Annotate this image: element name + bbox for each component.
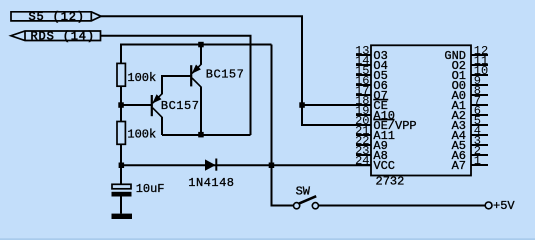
transistor Q1 BC157 xyxy=(191,64,201,88)
svg-text:S5 (12): S5 (12) xyxy=(29,10,85,24)
pin 9 (O0) xyxy=(452,74,488,93)
svg-text:1N4148: 1N4148 xyxy=(188,176,234,190)
terminal +5V xyxy=(485,202,492,209)
pin 11 (O2) xyxy=(452,54,489,73)
wire Q2 collector down xyxy=(161,117,163,135)
IC U1 2732 xyxy=(371,45,471,175)
pin 1 (A7) xyxy=(452,154,488,173)
pin 22 (A9) xyxy=(355,134,388,153)
junction Q1 collector node xyxy=(198,132,204,138)
wire base node to R2 xyxy=(120,105,122,122)
wire R2 to cap node xyxy=(120,144,122,165)
pin 15 (O5) xyxy=(355,64,388,83)
wire RDS net to collector rail xyxy=(101,36,251,135)
pin 12 (GND) xyxy=(444,44,488,63)
transistor Q2 BC157 xyxy=(152,94,162,118)
wire +V top rail xyxy=(121,45,272,64)
resistor R1 xyxy=(117,63,125,86)
wire cap node to capacitor xyxy=(120,165,122,185)
svg-text:+5V: +5V xyxy=(493,199,515,213)
svg-text:2732: 2732 xyxy=(376,174,405,188)
junction top rail / Q1 emitter xyxy=(198,42,204,48)
pin 13 (O3) xyxy=(355,44,388,63)
pin 20 (OE/VPP) xyxy=(355,114,417,133)
junction base node xyxy=(118,102,124,108)
wire S5 branch to pin 18 CE xyxy=(302,104,371,106)
wire base node to Q2 base xyxy=(121,104,151,106)
pin 10 (O1) xyxy=(452,64,489,83)
wire S5 net to pin 20 OE/VPP xyxy=(101,16,371,125)
signal flag RDS (14) xyxy=(11,29,101,43)
svg-text:100k: 100k xyxy=(127,127,156,141)
svg-text:100k: 100k xyxy=(127,71,156,85)
pin 21 (A11) xyxy=(355,124,395,143)
diode D1 xyxy=(205,159,216,171)
wire VCC bottom rail xyxy=(121,164,371,166)
pin 2 (A6) xyxy=(452,144,488,163)
pin 19 (A10) xyxy=(355,104,395,123)
svg-text:1: 1 xyxy=(474,154,481,168)
wire Q1 emitter up xyxy=(200,45,202,65)
pin 5 (A3) xyxy=(452,114,488,133)
svg-text:BC157: BC157 xyxy=(161,99,200,113)
svg-text:VCC: VCC xyxy=(373,159,395,173)
resistor R2 xyxy=(117,122,125,145)
svg-text:24: 24 xyxy=(355,154,369,168)
wire Q1 collector down xyxy=(200,87,202,135)
junction node S5/CE xyxy=(299,102,305,108)
ground xyxy=(112,214,133,219)
window bottom edge xyxy=(0,238,535,240)
pin 4 (A4) xyxy=(452,124,488,143)
pin 23 (A8) xyxy=(355,144,388,163)
pin 8 (A0) xyxy=(452,84,488,103)
switch SW xyxy=(294,196,319,209)
svg-text:RDS (14): RDS (14) xyxy=(31,29,95,43)
svg-text:10uF: 10uF xyxy=(136,182,165,196)
wire Q2 emitter to Q1 base xyxy=(162,76,190,94)
pin 24 (VCC) xyxy=(355,154,395,173)
pin 17 (O7) xyxy=(355,84,388,103)
svg-text:SW: SW xyxy=(296,184,311,198)
wire collector rail xyxy=(162,134,251,136)
pin 14 (O4) xyxy=(355,54,388,73)
pin 7 (A1) xyxy=(452,94,488,113)
junction cap/diode node xyxy=(119,163,125,169)
capacitor C1 xyxy=(112,184,132,196)
wire right rail down to switch xyxy=(272,45,294,206)
wire R1 to base node xyxy=(120,86,122,105)
signal flag S5 (12) xyxy=(11,10,101,24)
pin 18 (CE) xyxy=(355,94,388,113)
pin 6 (A2) xyxy=(452,104,488,123)
svg-text:A7: A7 xyxy=(452,159,466,173)
junction VCC rail node xyxy=(269,163,275,169)
svg-text:BC157: BC157 xyxy=(206,68,245,82)
wire capacitor to ground xyxy=(120,197,122,214)
pin 16 (O6) xyxy=(355,74,388,93)
wire switch to +5V xyxy=(319,205,486,207)
pin 3 (A5) xyxy=(452,134,488,153)
